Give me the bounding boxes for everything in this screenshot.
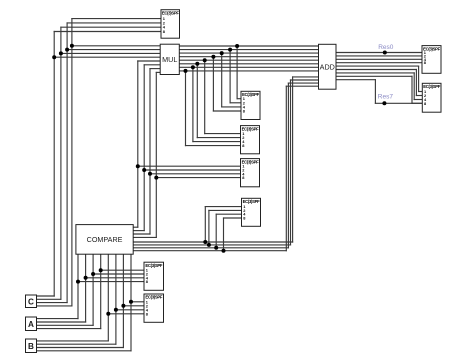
svg-text:ADD: ADD [320, 62, 335, 71]
svg-text:Res7: Res7 [378, 94, 394, 101]
svg-text:A: A [28, 320, 34, 329]
svg-text:EC(3)SPF: EC(3)SPF [145, 295, 162, 300]
svg-text:Res0: Res0 [378, 44, 394, 51]
svg-text:EC(3)SPF: EC(3)SPF [162, 10, 179, 15]
svg-text:EC(3)SPF: EC(3)SPF [145, 263, 162, 268]
svg-text:MUL: MUL [162, 55, 177, 64]
svg-text:C: C [28, 297, 34, 306]
svg-text:COMPARE: COMPARE [87, 235, 123, 244]
svg-text:B: B [28, 342, 34, 351]
